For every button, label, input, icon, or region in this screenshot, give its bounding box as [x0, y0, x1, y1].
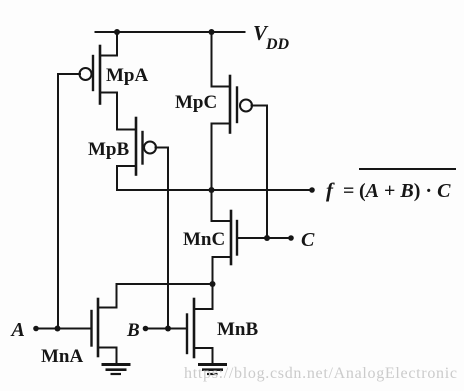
junction VDD-MpA	[114, 29, 120, 35]
wire MpC gate	[252, 105, 268, 107]
junction internal node	[210, 281, 216, 287]
svg-text:(A + B) · C: (A + B) · C	[359, 180, 451, 202]
svg-text:A: A	[10, 319, 25, 341]
wire MnC gate	[237, 237, 291, 239]
node C terminal	[288, 235, 294, 241]
wire input B	[146, 328, 188, 330]
svg-text:=: =	[343, 180, 354, 202]
transistor MnA	[92, 299, 117, 356]
wire input A	[36, 328, 92, 330]
wire MnA source down	[116, 348, 118, 364]
svg-text:MnA: MnA	[41, 346, 84, 367]
wire MnC source down	[212, 257, 214, 284]
svg-text:C: C	[301, 229, 315, 251]
svg-text:MnC: MnC	[183, 229, 225, 250]
svg-text:MpB: MpB	[88, 139, 130, 160]
ground MnA	[102, 365, 131, 375]
wire net-C vertical	[266, 106, 268, 239]
svg-text:MnB: MnB	[217, 319, 259, 340]
wire MpC drain to f	[211, 124, 213, 191]
junction A	[55, 326, 61, 332]
transistor MnC	[213, 211, 238, 264]
label output equation f	[326, 169, 456, 202]
node B terminal	[143, 326, 149, 332]
wire net-B vertical	[167, 148, 169, 329]
svg-text:https://blog.csdn.net/AnalogEl: https://blog.csdn.net/AnalogElectronic	[184, 365, 458, 382]
label VDD	[253, 21, 290, 53]
wire VDD to MpC source	[212, 32, 231, 87]
wire MnB source down	[212, 348, 214, 362]
junction f-MpC	[209, 187, 215, 193]
wire f to MnC drain	[212, 190, 232, 221]
wire MpB drain down	[116, 166, 118, 190]
VDD rail	[96, 31, 245, 33]
junction B	[165, 326, 171, 332]
wire node to MnB drain	[212, 284, 214, 309]
ground MnB	[198, 365, 227, 375]
wire MpA source to MpB	[116, 93, 118, 130]
svg-text:DD: DD	[265, 36, 290, 53]
transistor MpC	[212, 76, 253, 133]
wire MpA gate	[58, 73, 80, 75]
svg-text:MpA: MpA	[106, 65, 149, 86]
junction C gate	[264, 235, 270, 241]
wire output f line	[117, 189, 312, 191]
wire node to MnA drain	[116, 284, 118, 308]
wire internal node row	[117, 283, 213, 285]
svg-text:MpC: MpC	[175, 92, 217, 113]
wire MpB gate	[156, 147, 169, 149]
transistor MnB	[187, 299, 213, 357]
node A terminal	[33, 326, 39, 332]
wire net-A left vertical	[57, 74, 59, 329]
transistor MpB	[117, 118, 156, 175]
svg-text:B: B	[126, 320, 140, 341]
node f terminal	[309, 187, 315, 193]
junction VDD-MpC	[209, 29, 215, 35]
transistor MpA	[80, 32, 118, 104]
